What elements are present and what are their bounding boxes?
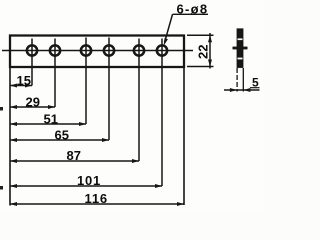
hole H2 [50,39,60,108]
svg-text:65: 65 [55,128,69,143]
edge speck 2 [0,186,3,190]
svg-text:51: 51 [44,112,58,127]
hole H6 [157,39,167,187]
horizontal centerline through holes [2,50,193,52]
hole H1 [27,39,37,86]
left edge extension line [9,67,11,206]
leader label 6-ø8 [164,2,209,46]
hole H5 [134,39,144,162]
dimension 101 [10,173,162,188]
hole H3 [81,38,91,125]
dimension 65 [10,128,109,143]
edge speck 1 [0,107,3,111]
svg-text:5: 5 [252,76,259,90]
svg-text:29: 29 [26,95,40,110]
svg-text:101: 101 [77,173,101,188]
svg-text:22: 22 [196,45,211,59]
svg-text:116: 116 [85,191,108,206]
plate outline (front view) [10,36,184,68]
dimension 15 [10,73,32,88]
svg-text:87: 87 [67,148,81,163]
dimension 5 (side view width) [224,76,260,93]
dimension 87 [10,148,139,163]
dimension 29 [10,95,55,110]
hole H4 [104,38,114,141]
right edge extension line [183,67,185,205]
side view extension lines [237,68,243,92]
background paper [0,0,264,213]
dimension 22 (right side, vertical) [187,33,214,69]
svg-text:15: 15 [17,73,31,88]
dimension 116 [10,191,184,206]
side view plate section [233,28,248,68]
dimension 51 [10,112,86,127]
